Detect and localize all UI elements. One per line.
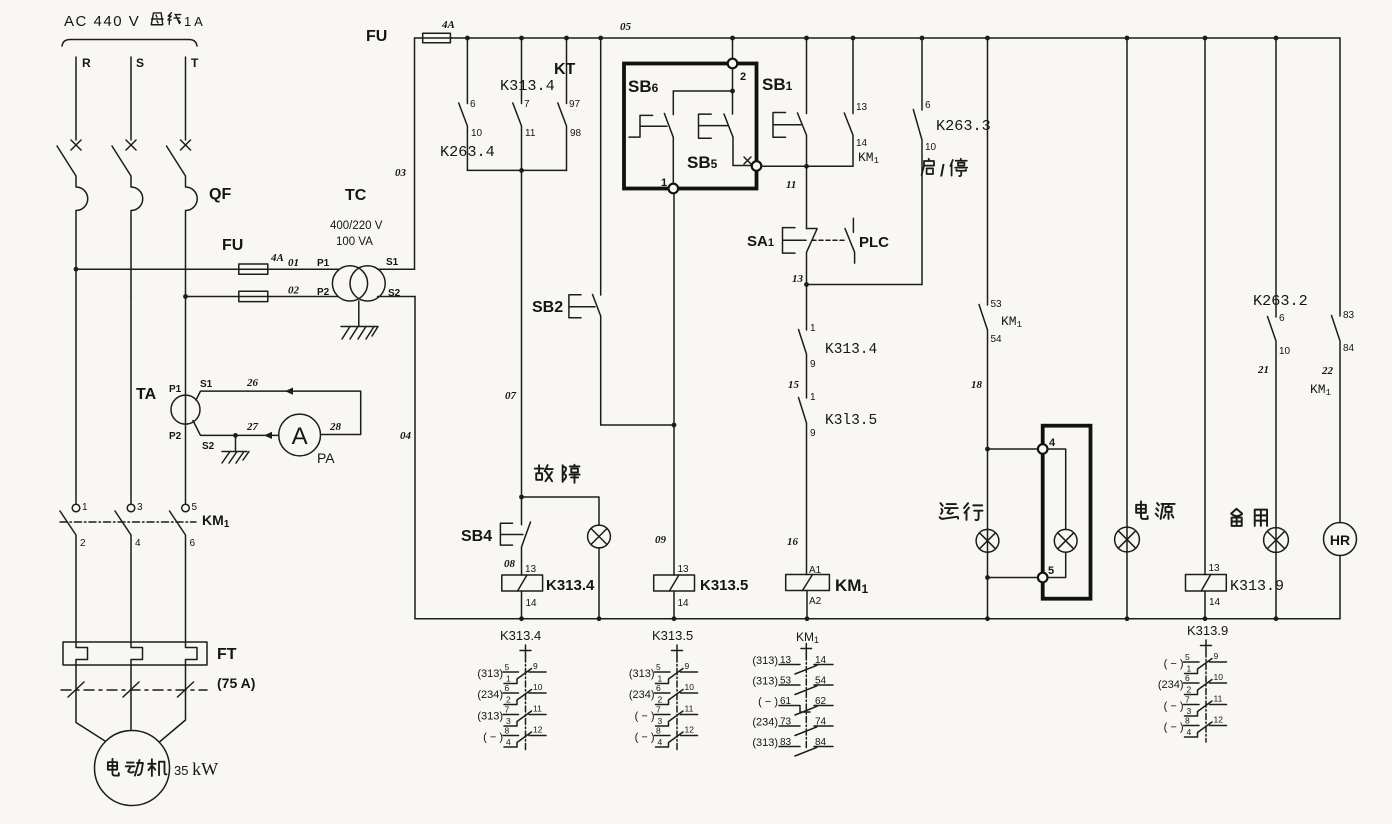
node 2 (terminal circle) bbox=[728, 59, 746, 83]
ground (TC secondary) bbox=[341, 301, 378, 339]
svg-text:S2: S2 bbox=[202, 441, 215, 452]
svg-text:6: 6 bbox=[656, 683, 661, 693]
svg-text:11: 11 bbox=[685, 704, 694, 714]
svg-text:100 VA: 100 VA bbox=[336, 236, 373, 248]
svg-text:4: 4 bbox=[135, 538, 141, 549]
contact table K313.5 bbox=[629, 628, 698, 750]
svg-text:07: 07 bbox=[505, 390, 517, 402]
junction (ground tap on wire 27) bbox=[233, 433, 238, 438]
ammeter PA bbox=[279, 414, 321, 456]
contactor KM1 main pole 3-4 bbox=[115, 502, 143, 642]
selector switch SA1 bbox=[747, 228, 817, 285]
svg-text:9: 9 bbox=[1214, 651, 1219, 661]
svg-text:FT: FT bbox=[217, 646, 237, 663]
svg-text:12: 12 bbox=[685, 725, 695, 735]
svg-text:HR: HR bbox=[1330, 532, 1350, 548]
node to pilot box (top) bbox=[985, 447, 990, 452]
fuse FU upper (4A) bbox=[239, 264, 268, 274]
svg-text:08: 08 bbox=[504, 558, 516, 570]
svg-text:5: 5 bbox=[656, 662, 661, 672]
wire SB2 to K313.5 branch bbox=[601, 424, 674, 426]
svg-text:4A: 4A bbox=[441, 19, 455, 31]
svg-text:1: 1 bbox=[506, 674, 511, 684]
svg-text:( − ): ( − ) bbox=[635, 711, 655, 723]
wire FT to motor (3 leads) bbox=[76, 665, 186, 742]
pushbutton SB6 (NO) bbox=[628, 77, 673, 184]
junction dots on bottom rail bbox=[519, 616, 1278, 621]
svg-text:1: 1 bbox=[810, 392, 816, 403]
svg-text:3: 3 bbox=[506, 716, 511, 726]
svg-text:10: 10 bbox=[1214, 672, 1224, 682]
svg-text:8: 8 bbox=[505, 726, 510, 736]
svg-text:1: 1 bbox=[82, 502, 88, 513]
svg-text:QF: QF bbox=[209, 186, 231, 203]
svg-text:7: 7 bbox=[524, 99, 530, 110]
contact table K313.9 bbox=[1158, 623, 1228, 742]
svg-text:13: 13 bbox=[792, 273, 804, 285]
svg-text:P1: P1 bbox=[169, 384, 182, 395]
busbar brace bbox=[62, 40, 197, 47]
svg-text:FU: FU bbox=[366, 28, 387, 45]
svg-text:7: 7 bbox=[656, 705, 661, 715]
svg-text:3: 3 bbox=[137, 502, 143, 513]
svg-text:11: 11 bbox=[786, 179, 796, 191]
svg-text:PLC: PLC bbox=[859, 234, 889, 251]
lamp 运行 (run) bbox=[976, 529, 999, 552]
linkage SA1-PLC (dashed) bbox=[812, 239, 847, 241]
svg-text:(234): (234) bbox=[629, 689, 655, 701]
svg-text:10: 10 bbox=[471, 128, 483, 139]
wire 27 (TA S2 to ammeter) bbox=[193, 421, 279, 436]
svg-text:2: 2 bbox=[80, 538, 86, 549]
contactor KM1 main pole 5-6 bbox=[170, 502, 198, 642]
box outline (bold) bbox=[624, 64, 757, 189]
svg-text:10: 10 bbox=[925, 142, 937, 153]
breaker QF pole S bbox=[112, 140, 143, 297]
svg-text:K313.5: K313.5 bbox=[700, 577, 748, 594]
lamp 电源 (power) bbox=[1115, 527, 1140, 552]
svg-text:8: 8 bbox=[1185, 716, 1190, 726]
wire joining three contacts (node 07 head) bbox=[467, 169, 566, 171]
node 3 (terminal circle, marked x) bbox=[744, 157, 761, 171]
svg-text:(313): (313) bbox=[752, 676, 778, 688]
svg-text:P2: P2 bbox=[317, 287, 330, 298]
svg-text:( − ): ( − ) bbox=[1164, 701, 1184, 713]
svg-text:5: 5 bbox=[192, 502, 198, 513]
svg-text:AC 440 V: AC 440 V bbox=[64, 13, 140, 30]
svg-text:2: 2 bbox=[1187, 685, 1192, 695]
svg-text:400/220 V: 400/220 V bbox=[330, 220, 383, 232]
wire phase T drop bbox=[185, 57, 187, 140]
wire 05 (top control rail) bbox=[450, 37, 1340, 39]
svg-text:S1: S1 bbox=[200, 379, 213, 390]
wire node 3 to node 11 bbox=[761, 165, 853, 167]
svg-text:9: 9 bbox=[685, 661, 690, 671]
label 电源 bbox=[1136, 501, 1175, 519]
svg-text:K313.4: K313.4 bbox=[500, 628, 541, 643]
node 5 (terminal circle) bbox=[1038, 565, 1054, 582]
svg-text:9: 9 bbox=[810, 359, 816, 370]
wire phase T through TA down to KM1 bbox=[185, 297, 187, 505]
svg-text:11: 11 bbox=[1214, 694, 1223, 704]
wire to fault lamp bbox=[522, 497, 600, 525]
wire phase R down to KM1 bbox=[75, 269, 77, 504]
svg-text:(75 A): (75 A) bbox=[217, 675, 255, 691]
svg-text:05: 05 bbox=[620, 21, 632, 33]
KM1 mechanical linkage (dash-dot) bbox=[60, 521, 196, 523]
wire node2 to SB6/SB5 tops bbox=[673, 68, 732, 114]
svg-text:4: 4 bbox=[1049, 437, 1056, 449]
wire node13 to K263.3 branch bbox=[807, 284, 923, 286]
contact KM1 13-14 (self hold) bbox=[844, 38, 879, 166]
svg-text:SB2: SB2 bbox=[532, 299, 563, 316]
svg-text:1: 1 bbox=[1187, 664, 1192, 674]
junction dots on top rail bbox=[465, 36, 1278, 41]
current transformer TA bbox=[171, 395, 200, 424]
svg-text:27: 27 bbox=[246, 421, 259, 433]
wire 04 (left riser to bottom rail) bbox=[414, 297, 416, 619]
wire from box node 1 down bbox=[673, 193, 675, 575]
svg-text:12: 12 bbox=[533, 725, 543, 735]
wire rail to node 2 bbox=[732, 38, 734, 59]
svg-text:98: 98 bbox=[570, 128, 582, 139]
svg-text:TC: TC bbox=[345, 187, 367, 204]
label 故障 bbox=[535, 465, 580, 483]
svg-text:13: 13 bbox=[856, 102, 868, 113]
svg-text:4A: 4A bbox=[270, 252, 284, 264]
svg-text:15: 15 bbox=[788, 379, 800, 391]
svg-text:02: 02 bbox=[288, 285, 300, 297]
svg-text:54: 54 bbox=[991, 334, 1003, 345]
svg-text:1: 1 bbox=[810, 323, 816, 334]
svg-text:FU: FU bbox=[222, 237, 243, 254]
contact K263.4 (6-10) bbox=[440, 38, 495, 170]
relay coil K313.5 bbox=[654, 564, 749, 619]
svg-text:(313): (313) bbox=[629, 668, 655, 680]
svg-text:R: R bbox=[82, 56, 91, 70]
thermal relay FT bbox=[63, 642, 207, 665]
wire 11 (down from node 11) bbox=[806, 166, 808, 228]
svg-text:6: 6 bbox=[470, 99, 476, 110]
svg-text:/: / bbox=[940, 161, 945, 180]
pushbutton SB2 (NC) bbox=[532, 295, 601, 426]
remote pilot lamp box (bold) bbox=[1043, 426, 1091, 599]
svg-text:97: 97 bbox=[569, 99, 581, 110]
svg-text:K263.4: K263.4 bbox=[440, 143, 495, 161]
svg-text:(313): (313) bbox=[477, 668, 503, 680]
breaker QF pole T bbox=[167, 140, 198, 297]
wire 03 (left riser to top rail) bbox=[414, 38, 416, 269]
svg-text:K313.4: K313.4 bbox=[825, 342, 877, 358]
svg-text:1: 1 bbox=[658, 674, 663, 684]
svg-text:53: 53 bbox=[991, 299, 1003, 310]
pushbutton SB5 (NO) bbox=[687, 114, 752, 172]
svg-text:(234): (234) bbox=[1158, 679, 1184, 691]
node 13 bbox=[804, 282, 809, 287]
contactor KM1 main pole 1-2 bbox=[60, 502, 88, 642]
transformer TC windings bbox=[332, 266, 385, 301]
svg-text:18: 18 bbox=[971, 379, 983, 391]
svg-text:K313.5: K313.5 bbox=[652, 628, 693, 643]
svg-text:(313): (313) bbox=[752, 655, 778, 667]
motor M (电动机 35 kW) bbox=[95, 731, 219, 806]
svg-text:2: 2 bbox=[506, 695, 511, 705]
svg-text:6: 6 bbox=[1279, 313, 1285, 324]
relay coil K313.4 bbox=[502, 558, 595, 619]
busbar title AC 440 V 母线 1A bbox=[64, 13, 203, 30]
svg-text:14: 14 bbox=[1209, 597, 1221, 608]
wire from rail to SB2 bbox=[600, 38, 602, 295]
svg-text:(313): (313) bbox=[752, 737, 778, 749]
contact K313.4 (7-11) bbox=[500, 38, 555, 170]
svg-text:83: 83 bbox=[1343, 310, 1355, 321]
svg-text:6: 6 bbox=[190, 538, 196, 549]
wire phase S drop bbox=[130, 57, 132, 140]
svg-text:TA: TA bbox=[136, 386, 157, 403]
svg-text:01: 01 bbox=[288, 257, 299, 269]
node to pilot box (bottom) bbox=[985, 575, 990, 580]
wire phase R drop bbox=[75, 57, 77, 140]
fuse FU (control, 4A) bbox=[366, 19, 455, 45]
svg-text:16: 16 bbox=[787, 536, 799, 548]
node 4 (terminal circle) bbox=[1038, 437, 1056, 454]
svg-text:28: 28 bbox=[329, 421, 342, 433]
relay coil K313.9 bbox=[1186, 563, 1285, 619]
svg-text:4: 4 bbox=[506, 737, 511, 747]
breaker QF pole R (contact x, knife, arc) bbox=[57, 140, 88, 269]
svg-text:9: 9 bbox=[810, 428, 816, 439]
svg-text:10: 10 bbox=[685, 682, 695, 692]
label 备用 bbox=[1231, 509, 1267, 526]
bottom control rail bbox=[415, 618, 1340, 620]
svg-text:( − ): ( − ) bbox=[758, 696, 778, 708]
lamp 备用 (standby) bbox=[1264, 528, 1289, 553]
svg-text:1 A: 1 A bbox=[184, 14, 203, 29]
svg-text:13: 13 bbox=[1209, 563, 1221, 574]
svg-text:5: 5 bbox=[505, 662, 510, 672]
svg-text:6: 6 bbox=[925, 100, 931, 111]
svg-text:S2: S2 bbox=[388, 288, 401, 299]
contact PLC (alternative) bbox=[845, 218, 889, 263]
svg-text:2: 2 bbox=[658, 695, 663, 705]
wire S2 to control rail 04 bbox=[378, 296, 416, 298]
svg-text:3: 3 bbox=[658, 716, 663, 726]
svg-text:( − ): ( − ) bbox=[1164, 658, 1184, 670]
svg-text:SB4: SB4 bbox=[461, 528, 492, 545]
contact K263.2 (6-10) bbox=[1253, 38, 1308, 619]
wire S1 to control rail 03 bbox=[378, 268, 415, 270]
svg-text:11: 11 bbox=[525, 128, 536, 139]
label 启/停 bbox=[922, 159, 968, 180]
contact KM1 53-54 bbox=[979, 38, 1022, 619]
lamp 故障 (fault) bbox=[588, 525, 611, 619]
fuse FU lower bbox=[239, 291, 268, 301]
contact K313.5 (1-9) bbox=[799, 392, 878, 575]
svg-text:PA: PA bbox=[317, 450, 335, 466]
svg-text:K3l3.5: K3l3.5 bbox=[825, 413, 877, 429]
svg-text:K263.3: K263.3 bbox=[936, 117, 991, 135]
svg-text:(313): (313) bbox=[477, 711, 503, 723]
lamp (remote run) with internal wiring bbox=[1048, 449, 1078, 578]
FT trip linkage (dashed) with slashes bbox=[61, 682, 207, 697]
node 1 (terminal circle) bbox=[661, 177, 678, 193]
wire bbox=[1126, 38, 1128, 619]
hour meter HR bbox=[1324, 523, 1357, 619]
svg-text:9: 9 bbox=[533, 661, 538, 671]
svg-text:26: 26 bbox=[246, 377, 259, 389]
contact K313.4 (1-9) bbox=[799, 285, 878, 399]
svg-text:6: 6 bbox=[505, 683, 510, 693]
svg-text:( − ): ( − ) bbox=[483, 732, 503, 744]
svg-text:11: 11 bbox=[533, 704, 542, 714]
svg-text:5: 5 bbox=[1185, 652, 1190, 662]
svg-text:P1: P1 bbox=[317, 258, 330, 269]
svg-text:8: 8 bbox=[656, 726, 661, 736]
svg-text:(234): (234) bbox=[752, 717, 778, 729]
svg-text:10: 10 bbox=[533, 682, 543, 692]
wire phase S down to KM1 bbox=[130, 297, 132, 505]
svg-text:S: S bbox=[136, 56, 144, 70]
pushbutton SB4 (NC) bbox=[461, 497, 531, 575]
svg-text:09: 09 bbox=[655, 534, 667, 546]
ground (ammeter circuit) bbox=[222, 435, 249, 463]
svg-text:KT: KT bbox=[554, 61, 576, 78]
svg-text:03: 03 bbox=[395, 167, 407, 179]
svg-text:K313.4: K313.4 bbox=[546, 577, 595, 594]
svg-text:7: 7 bbox=[1185, 695, 1190, 705]
svg-text:P2: P2 bbox=[169, 431, 182, 442]
wire 02 (T to fuse FU to TC P2) bbox=[186, 296, 339, 298]
svg-text:3: 3 bbox=[1187, 706, 1192, 716]
svg-text:12: 12 bbox=[1214, 715, 1224, 725]
svg-text:14: 14 bbox=[856, 138, 868, 149]
contact table KM1 bbox=[752, 630, 833, 756]
svg-text:1: 1 bbox=[661, 177, 667, 189]
svg-text:5: 5 bbox=[1048, 565, 1054, 577]
svg-text:S1: S1 bbox=[386, 257, 399, 268]
svg-text:( − ): ( − ) bbox=[1164, 722, 1184, 734]
contact KT (97-98) bbox=[554, 38, 582, 170]
svg-text:( − ): ( − ) bbox=[635, 732, 655, 744]
svg-text:13: 13 bbox=[525, 564, 537, 575]
svg-text:K313.4: K313.4 bbox=[500, 77, 555, 95]
wire 01 (R to fuse FU to TC P1) bbox=[76, 268, 340, 270]
svg-text:A2: A2 bbox=[809, 596, 822, 607]
svg-text:22: 22 bbox=[1321, 365, 1334, 377]
svg-text:4: 4 bbox=[658, 737, 663, 747]
node 故障 junction bbox=[519, 495, 524, 500]
svg-text:7: 7 bbox=[505, 705, 510, 715]
svg-text:4: 4 bbox=[1187, 727, 1192, 737]
svg-text:K313.9: K313.9 bbox=[1187, 623, 1228, 638]
svg-text:14: 14 bbox=[526, 598, 538, 609]
svg-text:6: 6 bbox=[1185, 673, 1190, 683]
wire 26 (TA S1 to ammeter loop) bbox=[196, 391, 361, 434]
svg-text:(234): (234) bbox=[477, 689, 503, 701]
contactor coil KM1 (A1-A2) bbox=[786, 565, 869, 619]
svg-text:10: 10 bbox=[1279, 346, 1291, 357]
svg-text:A: A bbox=[292, 423, 308, 450]
svg-text:T: T bbox=[191, 56, 199, 70]
svg-text:13: 13 bbox=[678, 564, 690, 575]
svg-text:21: 21 bbox=[1257, 364, 1269, 376]
contact KM1 83-84 bbox=[1332, 38, 1355, 523]
pushbutton SB1 (NO) bbox=[762, 38, 807, 166]
wire 07 down to fault section bbox=[521, 170, 523, 497]
contact table K313.4 bbox=[477, 628, 546, 750]
svg-text:2: 2 bbox=[740, 71, 746, 83]
svg-text:14: 14 bbox=[678, 598, 690, 609]
svg-text:84: 84 bbox=[1343, 343, 1355, 354]
svg-text:K263.2: K263.2 bbox=[1253, 292, 1308, 310]
label 运行 bbox=[940, 503, 983, 520]
svg-text:04: 04 bbox=[400, 430, 412, 442]
